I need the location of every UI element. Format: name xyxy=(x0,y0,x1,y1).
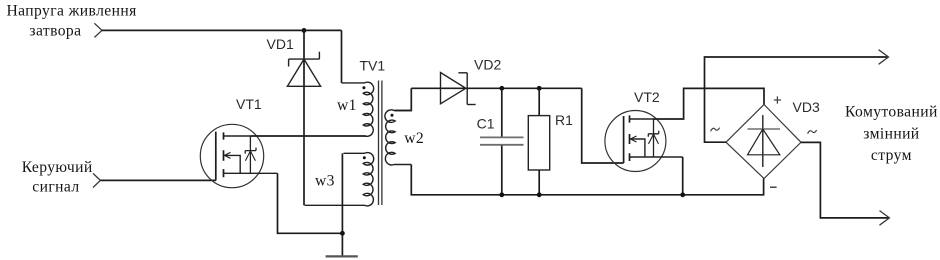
VT2 body diode lead xyxy=(653,119,655,157)
node: ground junction xyxy=(340,231,345,236)
node: junction R1 top xyxy=(537,86,542,91)
svg-text:w1: w1 xyxy=(337,97,357,114)
wire: gate supply rail (top) xyxy=(102,29,342,31)
VT1 channel segments xyxy=(223,132,225,177)
winding w2 xyxy=(385,110,411,165)
ground symbol xyxy=(326,255,358,257)
VT1 gate line xyxy=(215,132,217,181)
arrow: bottom output xyxy=(880,211,890,226)
winding w1 xyxy=(342,82,374,136)
VT2 body diode xyxy=(649,134,659,144)
svg-text:Керуючий: Керуючий xyxy=(22,159,93,176)
VT2 body circle xyxy=(605,111,666,172)
svg-text:R1: R1 xyxy=(555,112,573,128)
svg-text:TV1: TV1 xyxy=(360,58,386,74)
node: junction R1 bottom xyxy=(537,192,542,197)
polarity dot w2 xyxy=(391,114,394,117)
VT1 drain stub xyxy=(224,135,251,137)
zener diode VD2 xyxy=(441,73,476,105)
wire: w2 top to VD2 anode rail xyxy=(395,88,412,110)
VT1 body diode xyxy=(245,151,255,161)
VT1 middle stub with arrow xyxy=(225,155,241,173)
wire: VT2 source down to bottom rail xyxy=(682,157,684,195)
tilde mark right xyxy=(808,130,817,134)
svg-text:сигнал: сигнал xyxy=(32,179,79,196)
wire: bottom secondary rail xyxy=(411,165,763,195)
wire: bridge AC right down to bottom output xyxy=(801,142,889,218)
minus mark xyxy=(770,186,777,188)
VT2 drain stub xyxy=(630,118,654,120)
resistor R1 xyxy=(528,116,549,170)
svg-text:Комутований: Комутований xyxy=(845,104,938,121)
svg-text:w3: w3 xyxy=(315,173,335,190)
node: junction C1 top xyxy=(499,86,504,91)
wire: C1 bottom lead xyxy=(501,146,503,195)
wire: down to w1 top terminal xyxy=(341,30,343,83)
label: Керуючий сигнал xyxy=(22,159,93,196)
svg-text:змінний: змінний xyxy=(863,126,919,143)
diode VD1 vertical wire xyxy=(303,30,305,205)
wire: top rail corner down to VT2 gate xyxy=(582,88,624,163)
wire: VT2 drain up and to bridge + xyxy=(654,88,765,119)
plus mark xyxy=(774,96,781,103)
wire: w3 top terminal down to ground xyxy=(341,153,343,256)
transistor VT2 (MOSFET) xyxy=(605,111,683,172)
capacitor C1 xyxy=(480,137,524,144)
VT1 body diode lead xyxy=(249,136,251,173)
connector chevron: control signal input xyxy=(93,173,100,187)
svg-text:w2: w2 xyxy=(404,130,424,147)
VT1 body circle xyxy=(200,124,263,187)
svg-text:VT1: VT1 xyxy=(236,96,262,112)
node: junction VT2 source xyxy=(680,192,685,197)
wire: control signal to VT1 gate xyxy=(100,179,215,181)
wire: VT1 source down and right to ground node xyxy=(278,173,343,233)
VT1 source stub xyxy=(224,172,278,174)
VT2 middle stub with arrow xyxy=(631,139,645,157)
svg-text:C1: C1 xyxy=(477,116,495,132)
svg-text:Напруга живлення: Напруга живлення xyxy=(7,3,137,20)
svg-text:VD2: VD2 xyxy=(474,57,501,73)
label: Напруга живлення затвора xyxy=(7,3,137,40)
transistor VT1 (MOSFET) xyxy=(200,124,277,187)
winding w3 xyxy=(305,153,374,206)
wire: bridge AC left up to top output xyxy=(705,57,889,142)
arrow: top output xyxy=(879,50,889,65)
label: Комутований змінний струм xyxy=(845,104,938,164)
wire: C1 top lead xyxy=(501,88,503,137)
wire: R1 top lead xyxy=(538,88,540,115)
wire: top secondary rail through VD2 xyxy=(411,87,581,89)
VD3 inner diode xyxy=(748,115,781,167)
svg-text:VD1: VD1 xyxy=(267,36,294,52)
VT2 channel segments xyxy=(629,115,631,161)
connector chevron: gate supply input xyxy=(94,23,102,37)
svg-text:затвора: затвора xyxy=(29,22,81,39)
tilde mark left xyxy=(711,128,720,132)
svg-text:струм: струм xyxy=(871,147,912,164)
node: junction C1 bottom xyxy=(499,192,504,197)
VT2 gate line xyxy=(623,116,625,163)
polarity dot w3 xyxy=(363,156,366,159)
svg-text:VT2: VT2 xyxy=(634,89,660,105)
transformer TV1 core xyxy=(379,81,382,206)
zener diode VD1 xyxy=(287,52,320,87)
bridge rectifier VD3 diamond xyxy=(726,105,801,179)
wire: R1 bottom lead xyxy=(538,170,540,195)
polarity dot w1 xyxy=(362,86,365,89)
VT2 source stub xyxy=(630,156,683,158)
svg-text:VD3: VD3 xyxy=(793,99,820,115)
node: junction VD1 top xyxy=(302,28,307,33)
wire: VT1 drain to w1 bottom xyxy=(250,135,365,137)
